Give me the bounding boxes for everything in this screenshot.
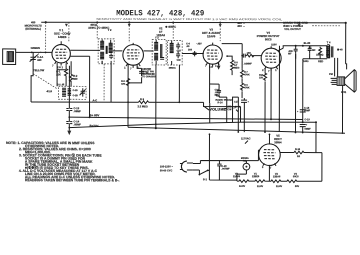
wire: V1 pins to osc section (57, 61, 71, 86)
wire: vertical from V1 bottom to ground (68, 66, 70, 131)
resistor R7 (241, 68, 244, 78)
resistor R9 (241, 81, 244, 91)
svg-text:T 4: T 4 (327, 41, 331, 44)
wire: main AC/ground bus (128, 127, 345, 133)
wire: dashed drop rail to T3 (172, 22, 174, 38)
wire: antenna to tuning cap (16, 51, 53, 53)
resistor R1 (65, 66, 68, 78)
svg-text:50-60 CYC: 50-60 CYC (160, 169, 173, 172)
resistor R10 cathode (264, 71, 267, 81)
tube V1 (52, 41, 70, 63)
output transformer T4 (326, 41, 333, 58)
resistor R8 (231, 60, 234, 70)
wire: dashed drop rail to V1 grid (68, 22, 70, 41)
capacitor C6 on V3 grid (193, 51, 197, 56)
svg-text:B+ 80V: B+ 80V (90, 113, 100, 117)
wire: B+ feed vertical with filter caps (302, 61, 304, 122)
svg-text:YELLOW: YELLOW (33, 69, 45, 72)
svg-text:50MF: 50MF (304, 109, 311, 112)
svg-text:B+72V: B+72V (89, 124, 98, 128)
wire: L3 screen line crossing (204, 102, 241, 122)
svg-text:VOLUME: VOLUME (210, 107, 227, 111)
wire: switch lower stub (198, 170, 200, 175)
wire: output stage return vertical (278, 46, 280, 132)
node: dot at ground bus (155, 127, 157, 129)
svg-text:C-2 .05: C-2 .05 (57, 83, 65, 86)
capacitor C1D variable in gang (80, 88, 86, 96)
svg-text:100KC TO 455KC: 100KC TO 455KC (88, 27, 109, 30)
svg-text:C-1B: C-1B (73, 94, 79, 97)
svg-text:PM: PM (329, 73, 333, 76)
node: dot (241, 55, 243, 57)
measurement arrowheads on rail (65, 24, 301, 27)
wire: V1 screen feed drop (70, 56, 89, 117)
resistor R2 (69, 74, 72, 81)
node: dots on plate line (295, 45, 297, 47)
wire: dashed drop rail to V2 (128, 22, 130, 42)
IF transformer T2 box (98, 39, 114, 64)
svg-text:12BE6: 12BE6 (252, 175, 260, 178)
wire: R7/R9 stack (241, 60, 243, 98)
svg-text:C-1D: C-1D (73, 89, 79, 92)
svg-text:MR15A: MR15A (241, 157, 249, 160)
svg-text:12.6V: 12.6V (257, 185, 264, 188)
ground arrow under C13/C14 string (67, 131, 71, 136)
svg-text:47K: 47K (121, 83, 126, 86)
svg-text:VOL OUTPUT: VOL OUTPUT (284, 28, 301, 31)
node: rail junction dots (45, 21, 47, 23)
speaker magnet bars (331, 78, 337, 84)
oscillator coil T1 / gang box (59, 86, 87, 99)
capacitor C-14 (66, 122, 72, 124)
wire: V2 screen drop (128, 65, 142, 83)
wire: V5 top to AC bus (268, 134, 270, 144)
wire: B+ from rectifier vertical (315, 122, 317, 152)
tube V5 rectifier (259, 144, 281, 166)
svg-text:(EXTERNAL): (EXTERNAL) (25, 28, 41, 31)
svg-text:470K: 470K (244, 73, 250, 76)
wire: B+ 80V bus (69, 117, 302, 119)
svg-text:40X →: 40X → (237, 25, 245, 28)
capacitor C19 electrolytic (300, 124, 306, 126)
wire: dashed link note to voice coil tap (312, 25, 341, 27)
svg-text:RADIO PHONO: RADIO PHONO (215, 99, 233, 102)
svg-text:220V: 220V (271, 43, 277, 46)
wire: right end of ground bus up (316, 153, 322, 182)
wire: C17 to ground bus (243, 98, 245, 132)
tube V3 (203, 43, 222, 65)
wire: phono switch verticals (219, 97, 238, 132)
svg-text:.005: .005 (288, 50, 293, 53)
wire: V4 plate up to BLUE (278, 46, 327, 51)
svg-text:12BA6: 12BA6 (273, 175, 281, 178)
svg-text:L 51: L 51 (341, 91, 347, 94)
svg-text:12AV6: 12AV6 (233, 175, 241, 178)
wire: T3 secondary to V3 grid (182, 53, 204, 55)
resistor R5 on V2 cathode (126, 78, 129, 85)
wire: heater chain start (237, 167, 270, 181)
svg-text:.047MF: .047MF (221, 167, 230, 170)
svg-text:-.42V: -.42V (196, 42, 202, 45)
svg-text:.05MF: .05MF (74, 123, 82, 126)
wire: .005MF cap return vertical (294, 54, 296, 132)
svg-text:SENSITIVITY AND STAGE GAINS AT: SENSITIVITY AND STAGE GAINS AT ½ WATT OU… (96, 18, 283, 21)
speaker cone (345, 69, 357, 92)
wire: T3 primary bottom drop (155, 65, 157, 128)
IF transformer T3 box secondary (168, 40, 183, 65)
loop antenna L1 (3, 49, 16, 65)
svg-text:150: 150 (247, 52, 252, 55)
wire: C1A down to AVC bus (31, 70, 33, 102)
volume control pot (204, 103, 210, 123)
wire: C16 net (210, 84, 220, 97)
svg-text:12.6V: 12.6V (276, 185, 283, 188)
switch S1 (199, 170, 208, 174)
wire: C19 to ground bus (302, 127, 304, 133)
wire: V4 cathode to bus (264, 68, 266, 132)
wire: R7 feed from plate corner (241, 56, 243, 60)
wire: V2 plate to T3 (144, 50, 154, 52)
wire: dashed gang line C1A to tuning gang (33, 52, 57, 89)
IF transformer T3 box primary (152, 39, 166, 65)
capacitor C15 coupling (243, 54, 245, 58)
svg-text:T 2: T 2 (108, 29, 112, 32)
capacitor C11 .02MF (308, 46, 312, 54)
wire: V1 cathode drop (56, 63, 58, 86)
wire: rail drop to voice coil (345, 23, 347, 64)
V5 pin ticks (263, 163, 276, 167)
resistor R16 surge (294, 151, 304, 154)
svg-text:420: 420 (37, 59, 42, 62)
svg-text:1600: 1600 (303, 60, 309, 63)
node: antenna wire dots (31, 51, 33, 53)
svg-text:.05MF: .05MF (74, 110, 82, 113)
svg-text:105-125V ~: 105-125V ~ (160, 165, 174, 168)
capacitor C5 bypass (139, 68, 144, 76)
capacitor C17 electrolytic (241, 100, 250, 103)
svg-text:C16: C16 (215, 88, 220, 91)
svg-text:READINGS TAKEN BETWEEN TUBE PI: READINGS TAKEN BETWEEN TUBE PIN TERMINAL… (25, 178, 120, 182)
V3 pin ticks (206, 63, 219, 67)
capacitor C16 coupling to volume (217, 88, 221, 95)
svg-text:RED: RED (318, 60, 323, 63)
resistor R13 3300 (319, 47, 322, 55)
wire: plug leads (193, 164, 201, 171)
svg-text:TO CHASSIS: TO CHASSIS (142, 75, 156, 78)
V2 pin ticks (126, 64, 140, 68)
svg-text:50C5: 50C5 (293, 175, 299, 178)
wire: B+72V bus (69, 122, 316, 128)
wire: T3 secondary bottom drop (178, 65, 180, 102)
wire: V3 grid return down to volume (209, 64, 211, 103)
wire: T3 tops to B+ (156, 40, 172, 65)
switch contact marks (235, 106, 237, 108)
svg-text:C-19: C-19 (305, 118, 311, 121)
svg-text:R-14: R-14 (218, 101, 224, 104)
V4 pin ticks (265, 67, 278, 71)
svg-text:.01MMF: .01MMF (244, 62, 253, 65)
wire: switch to bus riser (208, 134, 237, 180)
wire: dashed drop rail to antenna (45, 22, 47, 49)
svg-text:-61.5: -61.5 (46, 90, 52, 93)
svg-text:2.2 MEG: 2.2 MEG (138, 105, 148, 108)
wire: dashed drop rail to V3 (219, 23, 221, 41)
svg-text:⊞-40: ⊞-40 (337, 48, 343, 51)
wire: V3 plate line (222, 44, 247, 56)
svg-text:MEG: MEG (234, 67, 239, 70)
svg-text:GREEN: GREEN (31, 47, 40, 50)
svg-text:A-C: A-C (93, 99, 98, 102)
wire: V2 cathode resistor drop (127, 64, 129, 127)
wire: AVC bus (A-C) (31, 101, 203, 103)
svg-text:S-1: S-1 (203, 178, 208, 181)
svg-text:35W4: 35W4 (274, 140, 282, 144)
wire: T4 secondary to voice coil (335, 58, 338, 77)
wire: V4 screen drop (270, 68, 272, 119)
wire: lamp connections (246, 150, 259, 174)
pilot lamp / thermistor (243, 163, 250, 170)
capacitor C12 .005MF across primary (294, 46, 298, 54)
svg-text:455KC: 455KC (169, 67, 176, 70)
notes block (6, 141, 120, 182)
svg-text:2 6 1: 2 6 1 (57, 66, 63, 69)
node: bus junction dots (155, 123, 157, 125)
tube V2 (123, 43, 144, 65)
wire: dashed drop rail to T2 (96, 22, 98, 38)
svg-text:22K: 22K (56, 73, 61, 76)
svg-text:1Ω: 1Ω (297, 155, 300, 158)
svg-text:4Ω: 4Ω (243, 160, 246, 163)
svg-text:50V: 50V (295, 185, 300, 188)
svg-text:117VAC: 117VAC (241, 137, 251, 140)
svg-text:12.6V: 12.6V (239, 185, 246, 188)
speaker L51 voice coil (337, 77, 345, 86)
wire: voice coil measurement tap (346, 64, 347, 70)
svg-text:470K: 470K (244, 86, 250, 89)
tube V4 (261, 46, 281, 68)
svg-text:12AV6: 12AV6 (207, 34, 216, 38)
svg-text:⊕ 455KC: ⊕ 455KC (165, 26, 176, 29)
capacitor C-13 (66, 108, 72, 110)
filament chain resistors (237, 180, 322, 183)
svg-text:R10: R10 (259, 74, 264, 77)
ground arrow at V3 cathode (218, 62, 220, 65)
node: junction dot (127, 117, 129, 119)
wire: dashed shaft line T2 (103, 64, 105, 101)
svg-text:12BE6: 12BE6 (58, 35, 67, 39)
wire: T2 secondary to V2 grid (102, 40, 122, 102)
wire: RED return line (296, 53, 328, 61)
svg-text:680: 680 (73, 78, 78, 81)
svg-text:BLUE: BLUE (304, 42, 311, 45)
svg-text:R-16: R-16 (295, 148, 301, 151)
capacitor C20 line filter (217, 161, 221, 181)
V1 pin ticks (55, 62, 68, 66)
wire: plug upper lead riser (200, 161, 258, 164)
wire: stopper to V4 grid (252, 55, 261, 57)
wire: speaker return to ground bus (341, 85, 343, 132)
resistor R11 150 grid stopper (246, 54, 253, 57)
AC plug P1 (180, 161, 193, 172)
capacitor in T2 (109, 53, 113, 59)
resistor R6 in AVC bus (139, 101, 149, 104)
wire: top measurement rail (41, 21, 346, 24)
svg-text:R 6: R 6 (140, 98, 145, 101)
wire: V5 plate to R16 to B+ (280, 152, 316, 154)
svg-text:50MF: 50MF (304, 128, 311, 131)
svg-text:50C5: 50C5 (265, 37, 272, 41)
wire: V1 plate to T2 (70, 39, 102, 64)
wire: R8 net (227, 56, 232, 75)
capacitor C18 electrolytic (297, 110, 306, 114)
capacitor C1A tuning (30, 52, 38, 70)
